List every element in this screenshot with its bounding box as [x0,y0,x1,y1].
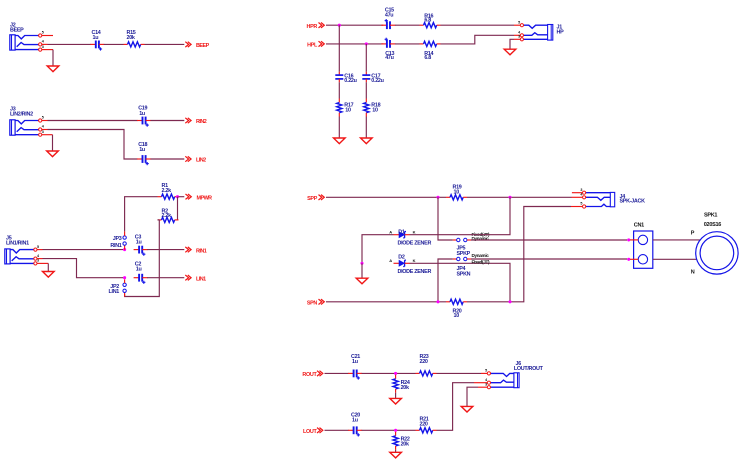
pin 3 of J6 [485,382,490,388]
svg-text:LIN2: LIN2 [196,158,206,164]
pin 4 of J2 [39,40,45,46]
label DIODE ZENER D2 [398,269,432,275]
label JP5 Fixed/Dynamic [472,232,490,241]
svg-text:HPR: HPR [307,24,318,30]
svg-text:220: 220 [420,359,428,365]
label J6 LOUT/ROUT [514,361,544,372]
wire C13 to R14 [395,43,420,45]
label R20 10 [453,308,462,319]
label CN1 [634,223,644,229]
svg-text:10: 10 [454,190,460,196]
wire J2 pin5 stub [42,35,53,37]
svg-text:SPN: SPN [307,301,318,307]
wire HPL junction down to C17 [365,44,367,72]
port BEEP [185,42,209,49]
resistor R20 [446,299,467,304]
label R22 20k [401,437,410,448]
wire HPR to C15 [326,24,383,26]
svg-text:3: 3 [37,259,39,263]
wire J3 pin4 to C18 [42,130,138,160]
wire J5 pin3 to ground [37,263,48,271]
junction HPR/C16 [338,24,341,27]
svg-text:LIN1: LIN1 [109,289,120,295]
svg-text:RIN2: RIN2 [196,119,207,125]
wire C17 to R18 [365,82,367,98]
label R18 10 [371,103,380,114]
svg-text:1u: 1u [136,267,142,273]
label JP3 RIN1 [110,236,121,249]
connector CN1 [634,231,653,268]
label JP2 LIN1 [109,284,120,295]
port HPL [307,41,324,48]
label R15 20k [127,30,136,41]
junction R19 output [508,196,511,199]
svg-text:BEEP: BEEP [196,43,210,49]
label C2 1u [135,261,142,272]
wire J5 pin4 to node LIN1 [37,259,125,278]
label DIODE ZENER D1 [398,240,432,246]
svg-text:6.8: 6.8 [424,18,431,24]
pin 3 of J2 [39,45,44,51]
pin 2 of CN1 [630,258,638,260]
capacitor C20 [348,426,362,436]
capacitor C3 [134,246,148,256]
svg-text:5: 5 [518,20,520,24]
ground at J2 [47,66,59,72]
port RIN1 [185,247,206,254]
svg-text:BEEP: BEEP [10,28,24,34]
label C3 1u [135,234,142,245]
svg-text:2.2k: 2.2k [162,188,172,194]
pin 1 of CN1 [630,239,638,241]
svg-text:1u: 1u [352,417,358,423]
pin 5 of J1 [518,20,523,26]
svg-text:K: K [413,229,416,234]
wire J1 pin3 to ground [510,39,520,49]
wire C3 to RIN1 port [147,249,184,251]
wire J3 pin3 to ground [42,135,53,151]
wire JP3 to R1 [125,197,158,232]
wire LOUT to C20 [325,429,349,431]
svg-text:4: 4 [42,40,45,44]
svg-text:3: 3 [580,188,582,192]
capacitor C19 [137,117,151,127]
jumper JP3 [123,231,126,249]
label N [691,270,695,276]
capacitor C16 [335,72,343,82]
svg-text:47u: 47u [385,13,393,19]
label C21 1u [351,354,360,365]
label R16 6.8 [424,13,433,23]
resistor R17 [337,99,342,117]
resistor R15 [124,42,145,47]
wire C18 to LIN2 port [151,158,185,160]
resistor R14 [420,41,441,46]
ground at J1 [504,49,516,55]
pin 5 of J2 [39,31,44,37]
port LIN1 [185,275,206,282]
ground at J6 [461,406,473,412]
resistor R19 [446,195,467,200]
pin 4 of J5 [34,254,40,260]
connector J3 (jack LIN2/RIN2) [10,120,39,135]
label D2 [398,255,405,261]
wire J3 pin5 to C19 [42,120,138,122]
junction node MPWR [176,195,179,198]
ground below R17 [334,138,346,144]
jumper JP2 [123,279,126,296]
wire J5 pin5 to node RIN1 [37,249,125,251]
port LOUT [303,428,323,435]
svg-text:JP3: JP3 [113,236,122,242]
svg-text:SPK-JACK: SPK-JACK [620,199,646,205]
label R24 20k [401,380,410,391]
port SPN [307,299,324,306]
junction R20 output [508,300,511,303]
connector J2 (jack BEEP) [10,35,39,50]
wire C20 to R21 [362,429,416,431]
svg-text:HP: HP [557,30,565,36]
wire C2 to LIN1 port [147,277,184,279]
svg-text:Fixed(JT): Fixed(JT) [472,260,490,265]
label R2 2.2k [162,208,172,219]
port RIN2 [185,118,206,125]
junction diode anode node [360,262,363,265]
label R23 220 [420,354,429,365]
wire J2 pin4 to C14 [42,43,91,45]
svg-text:3: 3 [518,35,520,39]
wire D1 anode to ground node [362,235,394,264]
port SPP [307,195,324,202]
svg-text:MPWR: MPWR [197,195,213,201]
resistor R2 [158,217,179,222]
capacitor C17 [362,72,370,82]
svg-text:5: 5 [42,116,44,120]
svg-text:5: 5 [42,31,44,35]
junction SPN node [436,300,439,303]
label R17 10 [344,103,353,114]
svg-text:5: 5 [37,245,39,249]
svg-text:2.2k: 2.2k [162,213,172,219]
junction SPP node [436,196,439,199]
speaker SPK1 [696,232,738,274]
wire R22 to ground [395,450,397,452]
capacitor C21 [348,370,362,380]
wire SPP node down to JP5 [438,197,453,240]
wire J4 pin3 stub [572,192,583,194]
jumper JP5 [453,238,471,241]
pin 3 of J3 [39,130,44,136]
wire C16 to R17 [338,82,340,98]
resistor R23 [416,371,437,376]
resistor R1 [158,194,179,199]
svg-text:LOUT/ROUT: LOUT/ROUT [514,366,544,372]
wire R21 to J6 pin4 [437,383,488,431]
svg-text:0.22u: 0.22u [371,78,383,84]
svg-text:LOUT: LOUT [303,429,317,435]
svg-text:5: 5 [580,202,582,206]
label R21 220 [420,417,429,428]
port MPWR [186,194,213,201]
wire R23 to J6 pin5 [437,372,488,374]
svg-text:10: 10 [454,313,460,319]
wire JP4 to CN1 pin2 [471,258,627,260]
junction HPL/C17 [365,42,368,45]
svg-text:4: 4 [37,254,40,258]
label JP5 SPKP [457,246,471,257]
capacitor C13 [381,38,395,48]
connector J6 (jack LOUT/ROUT) [491,373,520,388]
wire CN1 to speaker N [653,258,700,260]
wire R1 to MPWR port [179,196,185,198]
resistor R24 [393,375,398,393]
capacitor C18 [137,155,151,165]
wire D1 cathode to R19 output [410,197,511,234]
label C19 1u [138,106,147,117]
label C14 1u [92,30,101,41]
capacitor C2 [134,274,148,284]
resistor R21 [416,428,437,433]
wire D2 cathode to SPN node [410,263,511,302]
svg-text:10: 10 [345,107,351,113]
svg-text:D2: D2 [398,255,405,261]
label D1 [398,229,405,235]
svg-text:CN1: CN1 [634,223,644,229]
port LIN2 [185,156,206,163]
label R19 10 [453,185,462,196]
connector J5 label [6,236,29,247]
label JP4 Dynamic/Fixed [472,253,490,265]
pin 3 of J5 [34,259,39,265]
svg-text:20k: 20k [401,385,409,391]
label SPK1 [704,212,717,218]
svg-text:RIN1: RIN1 [196,248,207,254]
connector J2 label [10,23,24,34]
junction CN1 pin1 [627,238,630,241]
wire CN1 to speaker P [653,239,702,241]
wire SPN node up to JP4 [438,259,453,302]
wire HPL to C13 [326,43,383,45]
wire R14 to J1 pin4 [441,35,521,44]
label C13 47u [385,51,394,61]
pin 4 of J3 [39,125,45,131]
port HPR [307,23,325,30]
ground below R22 [390,452,402,458]
label R14 6.8 [424,51,433,61]
resistor R22 [393,432,398,450]
ground at diode node [356,278,368,284]
label C17 0.22u [371,74,383,85]
svg-text:3: 3 [42,130,44,134]
junction ROUT node [394,372,397,375]
svg-text:Dynamic: Dynamic [472,253,490,258]
svg-text:220: 220 [420,421,428,427]
ground at J5 [43,272,55,278]
pin 4 of J6 [485,378,490,384]
junction node RIN1 [123,248,126,251]
wire node MPWR down to R2 [177,197,179,220]
capacitor C15 [381,19,395,29]
svg-text:LIN2/RIN2: LIN2/RIN2 [10,112,33,118]
svg-text:A: A [389,229,392,234]
wire ROUT to C21 [325,372,349,374]
svg-text:1u: 1u [139,111,145,117]
wire C19 to RIN2 port [151,120,185,122]
connector J3 label [10,107,33,118]
diode zener D2 [394,260,410,266]
svg-text:SPKP: SPKP [457,251,471,257]
pin 3 of J1 [518,35,523,41]
wire R15 to BEEP port [145,43,185,45]
wire HPR junction down to C16 [338,25,340,72]
label A K of D2 [389,258,415,263]
label JP4 SPKN [457,266,471,278]
resistor R18 [364,99,369,117]
connector J4 (jack SPK-JACK) [586,192,615,206]
label C15 47u [385,8,394,19]
wire SPN to R20 [326,301,446,303]
svg-text:SPP: SPP [307,196,318,202]
connector J5 (jack LIN1/RIN1) [5,249,34,264]
ground below R24 [390,398,402,404]
pin 4 of J4 [580,193,585,199]
wire R20 to J4 pin5 [467,207,583,302]
wire J2 pin3 to ground [42,50,53,66]
svg-text:ROUT: ROUT [302,372,317,378]
svg-text:RIN1: RIN1 [110,243,121,249]
label R1 2.2k [162,183,172,194]
svg-text:47u: 47u [385,55,393,61]
pin 5 of J6 [485,369,490,375]
wire R18 to ground [365,117,367,138]
svg-text:LIN1: LIN1 [196,276,206,282]
junction CN1 pin2 [627,258,630,261]
wire C14 to R15 [104,43,124,45]
svg-text:SPKN: SPKN [457,272,471,278]
svg-text:1u: 1u [352,359,358,365]
junction LOUT node [394,429,397,432]
svg-text:DIODE ZENER: DIODE ZENER [398,240,432,246]
svg-text:DIODE ZENER: DIODE ZENER [398,269,432,275]
svg-text:20k: 20k [127,35,135,41]
wire SPP to R19 [326,196,446,198]
capacitor C14 [90,41,104,51]
svg-text:10: 10 [372,107,378,113]
label J1 HP [557,24,565,35]
svg-text:1u: 1u [136,239,142,245]
pin 4 of J1 [518,31,523,37]
wire J6 pin3 to ground [467,387,487,406]
svg-text:20k: 20k [401,442,409,448]
svg-text:4: 4 [42,125,45,129]
svg-text:SPK1: SPK1 [704,212,717,218]
junction node LIN1 [123,276,126,279]
pin 3 of J4 [580,188,585,194]
svg-text:K: K [413,258,416,263]
label 020S16 [704,222,721,228]
svg-text:A: A [389,258,392,263]
pin 5 of J5 [34,245,39,251]
label C18 1u [138,142,147,153]
pin 5 of J4 [580,202,585,208]
port ROUT [302,371,322,378]
svg-text:D1: D1 [398,229,405,235]
svg-text:1u: 1u [139,147,145,153]
wire R2 to JP2 [125,220,160,297]
resistor R16 [420,23,441,28]
label P [691,231,695,237]
label A K of D1 [389,229,415,234]
diode zener D1 [394,232,410,238]
wire anode node to ground [361,263,363,278]
svg-text:3: 3 [42,45,44,49]
wire R17 to ground [338,117,340,138]
svg-text:LIN1/RIN1: LIN1/RIN1 [6,241,29,247]
svg-text:020S16: 020S16 [704,222,721,228]
wire R19 to J4 pin4 [467,196,583,198]
svg-text:HPL: HPL [307,43,318,49]
svg-text:1u: 1u [93,35,99,41]
label C16 0.22u [344,74,356,85]
ground at J3 [47,151,59,157]
wire JP5 to CN1 pin1 [471,239,627,241]
ground below R18 [361,138,373,144]
wire R24 to ground [395,393,397,398]
label C20 1u [351,413,360,424]
svg-text:P: P [691,231,695,237]
connector J1 (jack HP) [524,25,553,41]
label J4 SPK-JACK [620,194,646,205]
svg-text:5: 5 [485,369,487,373]
svg-text:N: N [691,270,695,276]
svg-text:3: 3 [485,382,487,386]
wire R16 to J1 pin5 [441,24,521,26]
wire C15 to R16 [395,24,420,26]
pin 5 of J3 [39,116,44,122]
svg-text:6.8: 6.8 [424,55,431,61]
svg-text:0.22u: 0.22u [344,78,356,84]
jumper JP4 [453,257,471,260]
wire C21 to R23 [362,372,416,374]
